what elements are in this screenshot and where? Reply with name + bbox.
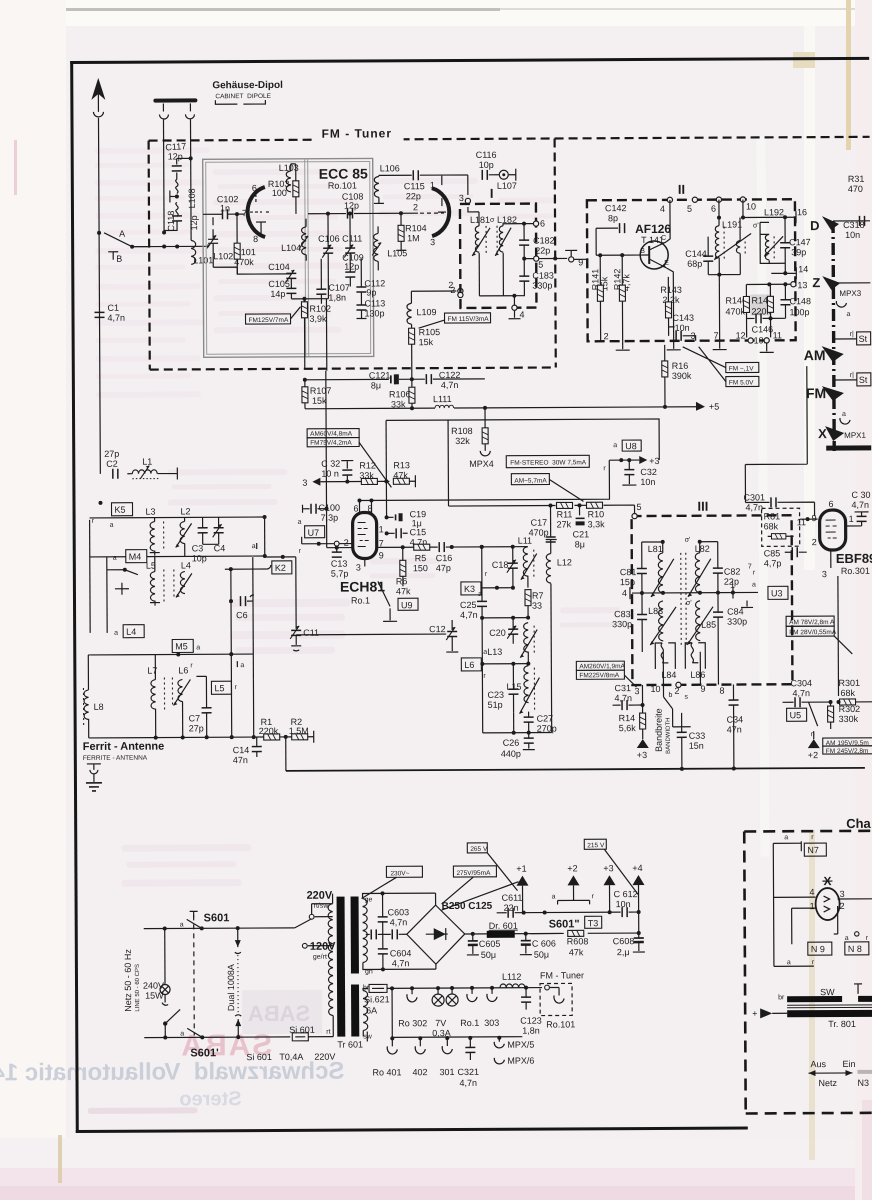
svg-text:3: 3 — [430, 237, 435, 247]
svg-text:10n: 10n — [845, 230, 860, 240]
svg-text:C13: C13 — [331, 559, 348, 569]
svg-text:15k: 15k — [419, 337, 434, 347]
svg-text:C3: C3 — [192, 543, 204, 553]
svg-text:T3: T3 — [588, 918, 599, 928]
N7 box — [804, 843, 826, 856]
svg-text:8: 8 — [253, 234, 258, 244]
wire 16 row — [743, 199, 796, 217]
N9 box — [808, 942, 832, 955]
svg-text:3,9k: 3,9k — [310, 314, 328, 324]
svg-text:C605: C605 — [479, 939, 501, 949]
svg-text:C318: C318 — [843, 220, 865, 230]
svg-text:a: a — [196, 644, 200, 651]
small caps pair — [371, 929, 376, 939]
svg-text:+2: +2 — [567, 863, 577, 873]
svg-text:1: 1 — [379, 524, 384, 534]
svg-text:St: St — [859, 334, 868, 344]
svg-text:50μ: 50μ — [534, 950, 549, 960]
svg-text:68k: 68k — [764, 521, 779, 531]
svg-text:L181: L181 — [470, 215, 490, 225]
svg-text:10: 10 — [650, 684, 660, 694]
svg-text:C25: C25 — [460, 600, 477, 610]
svg-text:a: a — [784, 834, 788, 841]
svg-text:Ein: Ein — [842, 1059, 855, 1069]
svg-text:6: 6 — [353, 504, 358, 514]
svg-text:Ferrit - Antenne: Ferrit - Antenne — [83, 741, 165, 753]
left bracket vertical — [89, 520, 92, 633]
svg-text:3: 3 — [459, 193, 464, 203]
svg-text:C611: C611 — [502, 893, 523, 903]
svg-text:FM - Tuner: FM - Tuner — [322, 126, 393, 140]
svg-text:10: 10 — [746, 201, 756, 211]
svg-text:Si.621: Si.621 — [364, 994, 390, 1004]
svg-text:L108: L108 — [187, 188, 197, 208]
frame top — [70, 57, 869, 64]
svg-text:br: br — [778, 994, 785, 1001]
wire A to tuner — [132, 246, 149, 248]
svg-text:+3: +3 — [603, 863, 613, 873]
svg-text:11: 11 — [773, 330, 782, 340]
svg-text:12p: 12p — [189, 215, 199, 230]
svg-text:FM-STEREO 30W 7,5mA: FM-STEREO 30W 7,5mA — [510, 459, 587, 466]
bottom bus y738 — [89, 736, 260, 739]
svg-text:+3: +3 — [637, 750, 647, 760]
svg-text:EBF89: EBF89 — [836, 551, 872, 566]
tube ECH81 — [353, 512, 377, 558]
svg-text:3: 3 — [691, 331, 696, 341]
svg-text:2: 2 — [450, 285, 455, 295]
svg-text:a: a — [613, 442, 617, 449]
svg-text:240V: 240V — [143, 981, 164, 991]
faint bottom small text — [88, 1107, 198, 1114]
lamps — [432, 994, 444, 1006]
svg-text:330p: 330p — [612, 619, 632, 629]
svg-text:s: s — [684, 694, 688, 701]
svg-text:Ro.101: Ro.101 — [546, 1019, 575, 1029]
svg-text:C113: C113 — [364, 298, 385, 308]
svg-text:L102: L102 — [213, 251, 233, 261]
wire down to AGC line — [285, 737, 287, 771]
right scan artifacts — [855, 0, 872, 1200]
T link pin9 — [565, 250, 577, 256]
svg-text:L5: L5 — [214, 683, 224, 693]
frame left — [70, 61, 79, 1133]
svg-text:C83: C83 — [614, 609, 631, 619]
svg-text:4,7n: 4,7n — [460, 1078, 478, 1088]
svg-text:1,8n: 1,8n — [522, 1026, 540, 1036]
svg-text:N7: N7 — [807, 845, 819, 855]
svg-text:r|: r| — [850, 331, 854, 338]
svg-text:7: 7 — [714, 331, 719, 341]
svg-text:22p: 22p — [535, 246, 550, 256]
svg-text:C32: C32 — [640, 467, 657, 477]
svg-text:C82: C82 — [724, 567, 741, 577]
svg-text:U5: U5 — [790, 710, 802, 720]
svg-text:220V: 220V — [307, 890, 333, 902]
svg-text:R14: R14 — [619, 713, 636, 723]
svg-text:R302: R302 — [839, 704, 861, 714]
svg-text:10 n: 10 n — [321, 469, 339, 479]
svg-text:R105: R105 — [419, 327, 441, 337]
svg-text:440p: 440p — [501, 749, 521, 759]
wire y549 right to L11 — [513, 546, 528, 548]
svg-text:C304: C304 — [790, 678, 812, 688]
svg-text:402: 402 — [412, 1067, 427, 1077]
boxed 275V/95mA — [453, 866, 496, 877]
svg-text:a: a — [298, 519, 302, 526]
svg-text:U8: U8 — [625, 441, 637, 451]
svg-text:FM 115V/3mA: FM 115V/3mA — [448, 316, 490, 323]
L5 switch box — [211, 681, 231, 694]
svg-text:sw: sw — [363, 1033, 373, 1040]
svg-text:R107: R107 — [310, 386, 332, 396]
mech link dashed — [193, 915, 196, 1035]
wire x838 down — [837, 576, 840, 696]
tube EBF89 — [820, 510, 846, 550]
core dots — [681, 553, 686, 647]
svg-text:ECC 85: ECC 85 — [319, 165, 368, 181]
svg-text:FM ~,1V: FM ~,1V — [729, 365, 754, 372]
svg-text:2: 2 — [604, 331, 609, 341]
main line y549 — [327, 547, 353, 549]
svg-text:12p: 12p — [168, 151, 183, 161]
main selector bus — [833, 221, 834, 451]
svg-text:7,3p: 7,3p — [321, 513, 339, 523]
MPX4 hook — [480, 451, 490, 456]
svg-text:27p: 27p — [104, 449, 119, 459]
svg-text:47p: 47p — [436, 563, 451, 573]
svg-text:32k: 32k — [455, 436, 470, 446]
svg-text:5: 5 — [687, 204, 692, 214]
svg-text:LINE 50 - 60 CPS: LINE 50 - 60 CPS — [135, 964, 141, 1012]
svg-text:C121: C121 — [369, 370, 391, 380]
svg-text:1n: 1n — [220, 203, 230, 213]
feed wire from bus area — [745, 366, 808, 502]
svg-text:C11: C11 — [303, 628, 319, 638]
boxed 230V~ — [386, 866, 422, 877]
svg-text:L3: L3 — [146, 507, 156, 517]
+2 ground arrow — [813, 731, 815, 739]
svg-text:BANDWIDTH: BANDWIDTH — [666, 718, 672, 754]
FM tuner dashed box — [149, 122, 871, 370]
svg-text:C85: C85 — [764, 548, 781, 558]
M4 box — [126, 550, 147, 563]
coils L84 L86 — [655, 643, 668, 669]
svg-text:r|: r| — [850, 372, 854, 379]
svg-text:MPX1: MPX1 — [844, 431, 866, 440]
svg-text:M4: M4 — [129, 552, 142, 562]
svg-text:C 32: C 32 — [321, 459, 340, 469]
wire dipole left leg — [162, 120, 165, 233]
+3 ground arrow — [637, 739, 649, 748]
svg-text:K5: K5 — [115, 505, 126, 515]
svg-text:6: 6 — [711, 204, 716, 214]
section III dashed box — [632, 515, 793, 685]
svg-text:U3: U3 — [771, 588, 783, 598]
svg-text:4,7n: 4,7n — [390, 917, 408, 927]
row y915 S601'' — [497, 911, 639, 914]
215V box + leader — [584, 839, 606, 849]
svg-text:L105: L105 — [387, 248, 407, 258]
svg-text:4,7n: 4,7n — [614, 693, 632, 703]
svg-text:Dual 1008A: Dual 1008A — [226, 964, 236, 1011]
svg-text:130p: 130p — [364, 308, 384, 318]
svg-text:6: 6 — [252, 183, 257, 193]
svg-text:AM 78V/2,8m A: AM 78V/2,8m A — [789, 619, 835, 626]
svg-text:C608: C608 — [613, 936, 635, 946]
svg-text:a: a — [483, 649, 487, 656]
ghost bleedthrough layer — [0, 136, 771, 1114]
svg-text:a: a — [752, 581, 756, 588]
svg-text:4,7p: 4,7p — [764, 558, 782, 568]
svg-text:rt: rt — [326, 1029, 330, 1036]
svg-text:330p: 330p — [727, 616, 747, 626]
svg-text:R143: R143 — [660, 285, 682, 295]
svg-text:+2: +2 — [808, 750, 818, 760]
svg-text:12p: 12p — [344, 262, 359, 272]
svg-text:3: 3 — [302, 478, 307, 488]
svg-text:C104: C104 — [268, 262, 290, 272]
svg-text:FM 245V/2,8m: FM 245V/2,8m — [826, 748, 869, 755]
svg-text:C321: C321 — [457, 1067, 479, 1077]
svg-text:C142: C142 — [605, 203, 627, 213]
K5 box — [111, 503, 132, 516]
svg-text:33: 33 — [532, 601, 542, 611]
svg-text:275V/95mA: 275V/95mA — [456, 870, 491, 877]
svg-text:47k: 47k — [396, 586, 411, 596]
svg-text:C111: C111 — [342, 233, 362, 243]
wire to R608 — [531, 932, 639, 935]
svg-text:L106: L106 — [380, 163, 400, 173]
svg-text:C21: C21 — [573, 529, 590, 539]
svg-text:4,7n: 4,7n — [460, 610, 478, 620]
svg-text:2,μ: 2,μ — [617, 947, 630, 957]
svg-text:C 30: C 30 — [851, 490, 870, 500]
wire collector up — [666, 200, 674, 341]
svg-text:15k: 15k — [312, 396, 327, 406]
svg-text:13: 13 — [797, 280, 807, 290]
antenna arrow — [97, 88, 99, 112]
capacitor C1 — [94, 312, 104, 317]
grid row y545 — [302, 543, 353, 545]
MPX5/6 — [494, 1038, 504, 1048]
svg-text:Ro.1: Ro.1 — [351, 595, 370, 605]
svg-text:C33: C33 — [689, 731, 706, 741]
svg-text:C16: C16 — [436, 553, 453, 563]
svg-text:C: C — [661, 235, 666, 242]
svg-text:SABA: SABA — [248, 1001, 311, 1026]
section I dashed box — [460, 204, 537, 308]
svg-text:MPX/6: MPX/6 — [507, 1056, 534, 1066]
wire dipole right leg — [189, 119, 192, 240]
svg-text:C6: C6 — [236, 610, 248, 620]
svg-text:FM 28V/0,55mA: FM 28V/0,55mA — [789, 629, 837, 636]
primary coil bumps — [328, 904, 333, 1016]
hooks — [407, 988, 417, 1002]
dipole bar — [155, 98, 195, 102]
svg-text:6: 6 — [540, 219, 545, 229]
L6 box row y666 — [461, 658, 481, 671]
svg-text:1M: 1M — [407, 233, 420, 243]
svg-text:C107: C107 — [328, 283, 350, 293]
svg-text:C31: C31 — [614, 683, 631, 693]
svg-text:1: 1 — [810, 901, 815, 911]
svg-text:a: a — [842, 411, 846, 418]
svg-text:Tr. 801: Tr. 801 — [828, 1019, 856, 1029]
svg-text:L191: L191 — [722, 220, 742, 230]
wire top row y177 — [379, 175, 468, 195]
middle ghosts — [119, 467, 621, 887]
grounds below — [713, 341, 727, 350]
N8 box — [845, 942, 869, 955]
svg-text:X: X — [818, 426, 827, 441]
svg-text:301: 301 — [439, 1067, 454, 1077]
svg-text:MPX4: MPX4 — [469, 459, 494, 469]
svg-text:C106: C106 — [318, 234, 340, 244]
svg-text:σ: σ — [490, 217, 495, 224]
svg-text:C183: C183 — [532, 270, 554, 280]
feed rail y422 — [386, 419, 659, 461]
triode system 1 (pins 6,7,8) — [247, 187, 265, 237]
svg-text:B250 C125: B250 C125 — [442, 901, 493, 912]
svg-text:R6: R6 — [396, 576, 408, 586]
svg-text:Ro.101: Ro.101 — [328, 181, 357, 191]
svg-text:14p: 14p — [270, 289, 285, 299]
svg-text:σ': σ' — [686, 600, 692, 607]
U3 box — [768, 586, 788, 599]
svg-text:M5: M5 — [175, 641, 188, 651]
row y620 — [482, 617, 528, 619]
wire osc loop — [213, 217, 291, 274]
svg-text:3: 3 — [840, 889, 845, 899]
svg-text:C116: C116 — [476, 150, 497, 160]
top scan line — [0, 8, 500, 11]
capacitor C123 — [521, 997, 531, 1002]
svg-text:R301: R301 — [838, 678, 860, 688]
svg-text:L111: L111 — [433, 394, 452, 404]
main bus — [286, 768, 865, 771]
svg-text:4,7n: 4,7n — [792, 688, 810, 698]
svg-text:T0,4A: T0,4A — [279, 1052, 303, 1062]
svg-text:22n: 22n — [504, 903, 519, 913]
inductor L101 — [191, 240, 196, 264]
svg-text:L192: L192 — [764, 207, 784, 217]
svg-text:3: 3 — [822, 569, 827, 579]
svg-text:K2: K2 — [275, 563, 286, 573]
frame bottom — [76, 1126, 748, 1133]
+3 arrow row — [609, 459, 639, 461]
svg-text:C604: C604 — [390, 948, 412, 958]
svg-text:68p: 68p — [687, 259, 702, 269]
svg-text:9p: 9p — [366, 287, 376, 297]
svg-text:9: 9 — [812, 513, 817, 523]
boxed value FM115V/3mA — [445, 313, 491, 323]
svg-text:S601: S601 — [204, 912, 230, 924]
value box AM78V — [786, 616, 834, 626]
row y557 — [90, 555, 253, 558]
svg-text:Tr 601: Tr 601 — [337, 1039, 363, 1049]
svg-text:Gehäuse-Dipol: Gehäuse-Dipol — [212, 80, 283, 91]
svg-text:9: 9 — [379, 550, 384, 560]
svg-text:L2: L2 — [181, 506, 191, 516]
svg-text:8: 8 — [719, 686, 724, 696]
secondary bumps lower — [363, 990, 368, 1030]
svg-text:10n: 10n — [640, 477, 655, 487]
svg-text:C84: C84 — [727, 606, 744, 616]
svg-text:R608: R608 — [567, 936, 589, 946]
svg-text:L112: L112 — [502, 972, 521, 982]
U7 box — [305, 526, 325, 538]
boxed FM-STEREO — [506, 455, 589, 467]
tap T — [170, 190, 177, 202]
svg-text:4: 4 — [622, 588, 627, 598]
gray ghost block — [242, 990, 322, 1034]
svg-text:27p: 27p — [189, 723, 204, 733]
svg-text:7V: 7V — [435, 1018, 446, 1028]
AM60V boxed values — [307, 429, 359, 438]
svg-text:FM125V/7mA: FM125V/7mA — [249, 317, 289, 324]
svg-text:FM75V/4,2mA: FM75V/4,2mA — [310, 440, 352, 447]
svg-text:a: a — [552, 893, 556, 900]
value box AM195V — [823, 738, 872, 746]
svg-text:C20: C20 — [489, 628, 506, 638]
svg-text:L6: L6 — [464, 660, 474, 670]
svg-text:22p: 22p — [406, 191, 421, 201]
svg-text:L11: L11 — [518, 536, 532, 546]
svg-text:4,7n: 4,7n — [441, 380, 459, 390]
svg-text:R7: R7 — [532, 591, 544, 601]
svg-text:C122: C122 — [439, 370, 461, 380]
value box FM ~1V — [726, 362, 759, 372]
svg-text:D: D — [810, 218, 819, 233]
svg-text:10p: 10p — [192, 553, 207, 563]
svg-text:MPX/5: MPX/5 — [507, 1040, 534, 1050]
svg-text:C146: C146 — [752, 324, 774, 334]
svg-text:L86: L86 — [690, 670, 705, 680]
svg-text:10p: 10p — [479, 160, 494, 170]
svg-text:Bandbreite: Bandbreite — [654, 708, 664, 752]
svg-text:5: 5 — [538, 260, 543, 270]
switch A — [104, 233, 132, 247]
svg-text:12: 12 — [736, 330, 746, 340]
svg-text:L83: L83 — [648, 606, 663, 616]
svg-text:9: 9 — [700, 684, 705, 694]
svg-text:330k: 330k — [839, 714, 859, 724]
svg-text:Aus: Aus — [810, 1059, 826, 1069]
double line — [787, 1005, 872, 1008]
+ arrow left — [760, 1008, 772, 1018]
svg-text:AM~5,7mA: AM~5,7mA — [514, 478, 547, 485]
svg-text:2: 2 — [413, 202, 418, 212]
svg-text:8μ: 8μ — [575, 539, 585, 549]
wire antenna down — [98, 118, 100, 474]
svg-text:1: 1 — [849, 514, 854, 524]
svg-text:+3: +3 — [649, 456, 659, 466]
svg-text:47n: 47n — [233, 755, 248, 765]
svg-text:14: 14 — [798, 264, 808, 274]
svg-text:C 612: C 612 — [614, 889, 638, 899]
svg-text:6A: 6A — [366, 1005, 377, 1015]
svg-text:C26: C26 — [503, 738, 520, 748]
section II dashed box — [587, 199, 796, 341]
svg-text:C123: C123 — [520, 1016, 542, 1026]
svg-text:15p: 15p — [620, 577, 635, 587]
left scan strip — [0, 0, 66, 1200]
svg-text:470: 470 — [848, 184, 863, 194]
svg-text:a: a — [787, 959, 791, 966]
svg-text:C182: C182 — [533, 235, 555, 245]
svg-text:330p: 330p — [532, 280, 552, 290]
